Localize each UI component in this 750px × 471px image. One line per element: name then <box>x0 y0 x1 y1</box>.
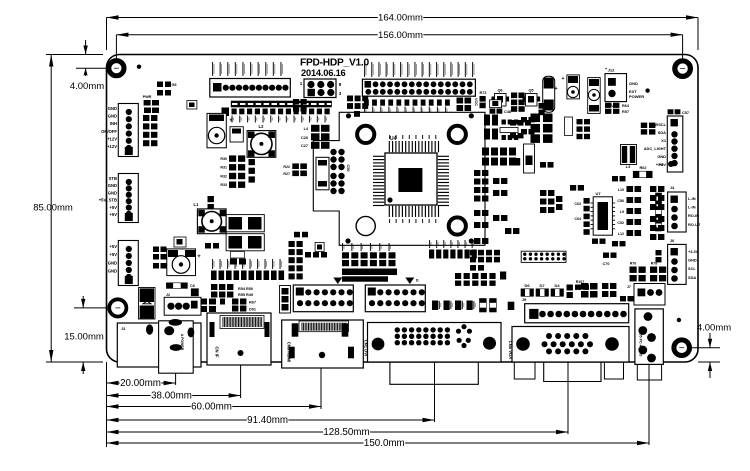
svg-text:R72: R72 <box>480 91 487 95</box>
transistor Q6 <box>495 94 507 107</box>
resistor pads R58 <box>570 185 576 191</box>
capacitor group C15 <box>482 148 489 156</box>
svg-text:+5V: +5V <box>109 205 117 210</box>
svg-text:D01: D01 <box>249 308 256 312</box>
dimension 156.00mm <box>116 34 377 36</box>
svg-text:D6: D6 <box>524 283 530 288</box>
marker triangle CN7 <box>405 278 414 285</box>
connector KB IF <box>117 323 201 367</box>
header J11 1x3 <box>280 286 291 314</box>
resistor pads R54 R50 <box>211 284 217 290</box>
capacitor strip C13-C30 <box>231 101 332 108</box>
connector J12 power <box>605 74 627 102</box>
cluster y185-240 left <box>540 190 546 196</box>
mounting hole top-left <box>109 61 124 76</box>
resistor array U0 <box>500 128 518 133</box>
svg-text:L12: L12 <box>618 232 624 236</box>
crystal X1 <box>524 144 535 173</box>
svg-text:J12: J12 <box>608 68 615 73</box>
IC U7 <box>593 197 612 235</box>
connector CN IF <box>207 313 271 365</box>
dimension 150.0mm <box>107 442 364 444</box>
caps column left of J6 <box>656 250 662 255</box>
IC U4 QFP body <box>385 153 437 205</box>
svg-text:C63: C63 <box>574 202 581 206</box>
resistor R72 <box>480 96 486 102</box>
caps row under module right <box>484 115 490 126</box>
connector CN7 2x7 header <box>365 285 425 312</box>
resistor row below LVDS <box>364 100 369 106</box>
svg-text:38.00mm: 38.00mm <box>151 391 192 402</box>
svg-text:R27: R27 <box>283 172 290 176</box>
resistor column R30-R38 <box>229 155 236 161</box>
cluster x470-515 y165-250 <box>474 170 480 176</box>
svg-text:L-IN: L-IN <box>688 196 696 201</box>
connector J7 keypad <box>210 79 290 98</box>
svg-text:GND: GND <box>108 269 117 274</box>
svg-text:128.50mm: 128.50mm <box>323 427 369 438</box>
LVDS pin labels <box>364 62 365 77</box>
svg-text:GND: GND <box>688 258 697 263</box>
svg-text:R31: R31 <box>220 166 227 170</box>
svg-text:+5V: +5V <box>109 252 117 257</box>
diode D2 <box>231 252 245 259</box>
module corner dot 3 <box>345 238 350 243</box>
svg-text:C20: C20 <box>301 136 308 140</box>
svg-text:J7: J7 <box>627 285 631 289</box>
svg-text:GND: GND <box>108 106 117 111</box>
svg-text:L9: L9 <box>620 210 624 214</box>
dimension 128.50mm <box>107 431 324 433</box>
svg-text:CN5 VGA: CN5 VGA <box>508 341 513 360</box>
resistor group left of J13 <box>470 250 476 256</box>
svg-text:+12V: +12V <box>107 136 117 141</box>
DVI analog pins <box>461 324 466 329</box>
U4 pin1 dot <box>387 197 392 202</box>
svg-text:R30: R30 <box>220 157 227 161</box>
VGA shell tabs <box>514 363 535 380</box>
DC jack footprint <box>159 321 194 373</box>
dimension 20.00mm <box>107 382 120 384</box>
dimension 4.00mm bottom right <box>691 347 720 349</box>
electrolytic capacitor C4 <box>167 249 196 276</box>
svg-text:J6: J6 <box>670 238 675 243</box>
+5V test point <box>673 164 675 166</box>
parts row below L1 <box>230 259 237 265</box>
resistor row R63 group <box>342 252 349 258</box>
svg-text:SCL: SCL <box>688 266 696 271</box>
capacitor column C63-C66 <box>584 198 590 204</box>
svg-text:+: + <box>197 254 201 260</box>
mounting hole bottom-right <box>674 340 690 356</box>
capacitor group C16 <box>500 148 507 156</box>
resistor cluster B40 B45 <box>531 114 541 123</box>
dimension 15.00mm <box>82 296 84 308</box>
svg-text:L1: L1 <box>194 202 200 207</box>
svg-text:CN IF: CN IF <box>215 347 220 358</box>
inductor L6 pads <box>200 299 207 305</box>
svg-text:C56: C56 <box>617 199 624 203</box>
connector J4 <box>668 192 687 232</box>
resistor cluster R62-R66 below J10 <box>347 96 353 102</box>
svg-text:2014.06.16: 2014.06.16 <box>301 68 346 78</box>
inductor L1 <box>197 209 226 234</box>
module corner dot 2 <box>469 113 474 118</box>
electrolytic C2 <box>567 75 580 99</box>
svg-text:Q5: Q5 <box>528 89 533 93</box>
resistor R69 <box>539 103 545 109</box>
svg-text:+12V: +12V <box>107 144 117 149</box>
svg-text:FPD-HDP_V1.0: FPD-HDP_V1.0 <box>300 58 369 69</box>
board outline <box>107 55 699 363</box>
part U5 <box>222 108 230 117</box>
resistor pads R67 D01 <box>232 299 238 305</box>
dark strip group <box>342 269 397 276</box>
heatsink hole top-right <box>449 126 466 143</box>
svg-text:R33: R33 <box>220 183 227 187</box>
svg-text:R54 R50: R54 R50 <box>238 287 253 291</box>
DVI shell tab <box>390 363 478 385</box>
connector J7a small <box>634 284 665 306</box>
J7 pin labels <box>212 62 213 76</box>
svg-text:L-IN: L-IN <box>688 205 696 210</box>
svg-text:150.0mm: 150.0mm <box>364 438 405 449</box>
svg-text:85.00mm: 85.00mm <box>33 203 73 214</box>
dimension 60.00mm <box>107 406 191 408</box>
svg-text:GND: GND <box>108 114 117 119</box>
svg-text:R64: R64 <box>622 104 630 108</box>
capacitor strips C77 C78 <box>289 241 295 247</box>
U4 pin index marks <box>389 135 390 139</box>
svg-text:60.00mm: 60.00mm <box>191 402 232 413</box>
capacitor cluster C8 group left of C4 <box>153 247 159 253</box>
extension line <box>648 362 650 445</box>
svg-text:91.40mm: 91.40mm <box>247 415 288 426</box>
svg-text:C48: C48 <box>504 110 511 114</box>
connector J13 mini dual row <box>521 251 566 262</box>
connector J8 <box>667 116 683 172</box>
parts cluster PWR/C11 <box>144 100 151 106</box>
inductor L2 <box>247 131 276 158</box>
dimension 91.40mm <box>107 419 247 421</box>
svg-text:+5V: +5V <box>109 212 117 217</box>
svg-text:L10: L10 <box>618 188 624 192</box>
svg-text:R57: R57 <box>622 110 629 114</box>
svg-text:C27: C27 <box>301 144 308 148</box>
resistor rows C84-C93 <box>429 250 434 259</box>
group below Q4 <box>510 120 516 126</box>
svg-text:4.00mm: 4.00mm <box>70 81 104 92</box>
svg-text:PWR: PWR <box>143 95 152 99</box>
svg-text:R78: R78 <box>651 262 658 266</box>
svg-text:J3: J3 <box>121 327 125 331</box>
module corner dot 1 <box>346 113 351 118</box>
dimension 164.00mm <box>107 17 378 19</box>
left extension line bottom dims <box>106 362 108 447</box>
dimension 38.00mm <box>107 395 151 397</box>
extension line <box>320 368 322 409</box>
svg-text:CN1 DVI: CN1 DVI <box>363 340 368 357</box>
inductor L3 <box>621 145 637 165</box>
transistor Q5 <box>526 94 538 107</box>
resistor R62 <box>633 171 639 178</box>
svg-text:Q6: Q6 <box>497 89 502 93</box>
extension lines for 156mm <box>115 35 117 60</box>
resistor pair R64 R57 <box>605 103 611 108</box>
connector J6 <box>668 244 687 284</box>
svg-text:SDA: SDA <box>688 275 696 280</box>
small boxes near C90 <box>480 299 487 303</box>
parts left of audio connector <box>620 296 626 301</box>
audio shell tab <box>637 365 661 381</box>
filter ladder L10/C56..L13/C73 <box>627 186 634 192</box>
connector J2 <box>118 174 138 223</box>
capacitor grid C50 <box>330 149 336 155</box>
svg-text:A POWER: A POWER <box>180 334 184 351</box>
module outline <box>313 112 485 245</box>
svg-text:C57: C57 <box>682 111 689 115</box>
marker triangle CN6 <box>333 278 342 285</box>
DVI pin row 3 <box>395 340 400 345</box>
connector J9 above VGA <box>525 304 629 323</box>
capacitor column C21 <box>143 115 149 121</box>
fiducial dot top-right <box>645 88 649 92</box>
connector J1 <box>118 104 138 157</box>
connector J3 <box>118 241 138 286</box>
heatsink hole bottom-right <box>449 217 466 234</box>
svg-text:CN3 HDMI: CN3 HDMI <box>287 342 292 362</box>
capacitor C57 <box>668 109 674 114</box>
svg-text:ADC_LIGHT: ADC_LIGHT <box>644 146 667 151</box>
heatsink hole bottom-left (plain) <box>356 216 375 235</box>
capacitor pair C44 <box>641 123 647 128</box>
mounting hole top-right <box>675 61 691 77</box>
caps right of module y115-135 <box>521 117 527 122</box>
svg-text:GND: GND <box>657 154 666 159</box>
group G right 2 <box>650 216 656 222</box>
mounting hole bottom-left <box>109 299 126 316</box>
U4 pins <box>388 141 390 152</box>
connector CN2 HDMI <box>282 320 364 368</box>
parts cluster G5/Q1 <box>157 82 163 88</box>
extension line <box>434 346 436 422</box>
svg-text:U7: U7 <box>595 191 601 196</box>
group G right 1 <box>650 186 656 192</box>
resistor group R71 R65 <box>511 93 517 99</box>
svg-text:R67: R67 <box>249 301 256 305</box>
VGA pin rows <box>546 333 552 339</box>
connector J5 PC-AUDIO <box>635 309 663 365</box>
svg-text:J2: J2 <box>166 293 170 297</box>
power header PWR <box>164 297 201 315</box>
svg-text:R32: R32 <box>220 174 227 178</box>
extension lines for 164mm <box>106 18 108 51</box>
svg-text:GND: GND <box>629 81 638 86</box>
svg-text:+5V: +5V <box>656 162 664 167</box>
module corner dot 4 <box>469 238 474 243</box>
capacitor C6 <box>166 283 173 289</box>
svg-text:4.00mm: 4.00mm <box>697 323 731 334</box>
svg-text:C70: C70 <box>603 262 610 266</box>
dimension 4.00mm top left <box>85 40 87 55</box>
svg-text:R62: R62 <box>640 166 647 170</box>
diode D3 <box>230 127 243 142</box>
connector CN1 DVI <box>368 323 502 363</box>
svg-text:GND: GND <box>108 183 117 188</box>
DVI pin row 1 <box>395 327 400 332</box>
svg-text:GND: GND <box>108 260 117 265</box>
caps C41 C42 <box>612 176 618 181</box>
extension ticks for 85mm <box>46 54 103 56</box>
svg-text:R55 R49: R55 R49 <box>238 293 253 297</box>
connector CN5 VGA <box>512 327 629 363</box>
resistor cluster right of U6 <box>577 119 583 124</box>
capacitor C40 <box>513 158 520 166</box>
diode row D60 D61 <box>455 273 461 279</box>
svg-text:GND: GND <box>108 190 117 195</box>
svg-text:L2: L2 <box>259 124 265 129</box>
parts L4 C20 C27 C19 <box>311 125 320 132</box>
svg-text:+: + <box>229 118 233 124</box>
transistor Q4 <box>490 100 502 108</box>
parts above VGA D6 D7 D4 <box>521 289 525 297</box>
svg-text:20.00mm: 20.00mm <box>120 378 161 389</box>
svg-text:C52: C52 <box>617 221 624 225</box>
svg-text:+5V_STB: +5V_STB <box>99 198 117 203</box>
crystal Y1 <box>316 157 329 190</box>
extension line <box>567 355 569 434</box>
resistor pads R60 <box>293 99 299 105</box>
resistor R5 <box>191 288 199 296</box>
resistor block K7 <box>226 215 264 232</box>
svg-text:SDA: SDA <box>658 130 666 135</box>
svg-text:G5: G5 <box>171 83 176 87</box>
svg-text:164.00mm: 164.00mm <box>378 13 423 24</box>
capacitor column C members <box>208 196 214 202</box>
fiducial dot bottom-right <box>677 318 681 322</box>
connector LVDS output header <box>362 79 475 96</box>
dimension 85.00mm <box>50 55 52 363</box>
caps column left of J4 <box>656 193 662 197</box>
svg-text:C64: C64 <box>574 217 581 221</box>
transistor Q2 <box>174 237 186 247</box>
svg-text:WSCL: WSCL <box>655 122 667 127</box>
caps C74 C76 C70 <box>592 239 598 244</box>
electrolytic C3 <box>588 78 601 114</box>
svg-text:R76: R76 <box>630 262 637 266</box>
svg-text:INH: INH <box>110 121 117 126</box>
svg-text:C50: C50 <box>346 165 350 172</box>
svg-text:X1: X1 <box>661 138 667 143</box>
VCC pad block <box>457 98 464 104</box>
svg-text:ON/OFF: ON/OFF <box>101 129 117 134</box>
resistor pairs R76 R77 <box>630 267 637 273</box>
svg-text:J9: J9 <box>522 297 527 302</box>
svg-text:+: + <box>554 86 557 92</box>
svg-text:+3.3V: +3.3V <box>688 249 699 254</box>
svg-text:156.00mm: 156.00mm <box>378 30 423 41</box>
electrolytic capacitor C17 <box>207 113 226 147</box>
sparse parts x540-560 y150-175 <box>540 162 546 168</box>
svg-text:+: + <box>562 76 565 82</box>
fuse F1 <box>543 76 555 112</box>
svg-text:J4: J4 <box>670 185 675 190</box>
svg-text:STB: STB <box>109 176 117 181</box>
DVI pin row 2 <box>395 334 400 339</box>
extension line <box>175 368 177 385</box>
svg-text:J5 PC-AUDIO: J5 PC-AUDIO <box>639 334 643 357</box>
svg-text:RO-UT: RO-UT <box>688 222 701 227</box>
heatsink hole top-left <box>357 126 374 143</box>
svg-text:D4: D4 <box>554 283 560 288</box>
resistor block R10 <box>226 234 264 251</box>
svg-text:C6: C6 <box>190 284 195 288</box>
diode D5 <box>139 288 156 320</box>
svg-text:+5V: +5V <box>109 244 117 249</box>
svg-text:RO-IN: RO-IN <box>688 213 699 218</box>
capacitor C48 <box>490 109 496 114</box>
svg-text:15.00mm: 15.00mm <box>64 332 104 343</box>
resistor pair R22/R27 <box>292 163 299 169</box>
IC U6 <box>565 117 573 136</box>
capacitor column C31 <box>249 159 255 165</box>
svg-text:R107: R107 <box>576 280 585 284</box>
svg-text:D7: D7 <box>539 283 545 288</box>
resistor strip R40-R53 <box>212 259 213 269</box>
svg-text:POWER: POWER <box>629 94 644 99</box>
extension line <box>240 360 242 398</box>
fiducial dot top-left <box>137 65 141 69</box>
svg-text:D: D <box>416 279 419 283</box>
transistor U8 cluster <box>294 232 300 238</box>
svg-text:R22: R22 <box>283 165 290 169</box>
svg-text:VCC: VCC <box>474 98 478 106</box>
resistor R107 <box>575 285 581 290</box>
HDMI contact strip <box>299 321 349 332</box>
connector CN6 2x7 header <box>293 285 353 312</box>
svg-text:L3: L3 <box>626 164 631 169</box>
CN IF contact strip <box>220 316 264 329</box>
connector J10 <box>304 79 336 98</box>
